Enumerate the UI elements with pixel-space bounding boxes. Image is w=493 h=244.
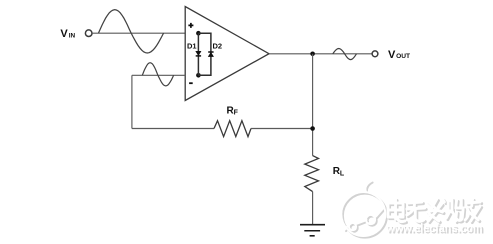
node D1 D2 bottom junction dot (196, 73, 201, 78)
svg-text:F: F (234, 110, 239, 117)
svg-text:IN: IN (69, 33, 76, 40)
label RL (333, 166, 345, 177)
op-amp - input pin label (189, 82, 193, 84)
node feedback junction dot (310, 126, 315, 131)
svg-text:D2: D2 (213, 42, 223, 51)
wire input VIN to op-amp + input (92, 32, 185, 34)
svg-text:OUT: OUT (396, 53, 410, 60)
label D2 (213, 42, 223, 51)
wire feedback bottom left segment to RF (132, 128, 214, 130)
label RF (227, 106, 239, 117)
wire RF to output node (251, 128, 313, 130)
node VOUT terminal (372, 51, 378, 57)
node D1 D2 top junction dot (196, 31, 201, 36)
op-amp U1 triangle (185, 7, 269, 101)
node VIN terminal (85, 30, 92, 37)
output sine wave symbol (333, 49, 357, 60)
node output junction dot (310, 52, 315, 57)
wire op-amp output to VOUT terminal (269, 53, 372, 55)
op-amp + input pin label (188, 23, 193, 28)
label D1 (187, 42, 197, 51)
diode D1 (pointing down) (196, 51, 201, 56)
resistor RL zigzag (305, 156, 319, 192)
resistor RF zigzag (214, 121, 251, 137)
svg-text:L: L (340, 170, 345, 177)
wire diode D1 branch vertical (197, 33, 199, 75)
wire feedback left vertical segment (131, 75, 133, 128)
diode D2 (pointing up) (208, 52, 213, 57)
wire diode D2 branch (top horizontal, vertical, bottom horizontal) (198, 33, 211, 75)
wire output node down to RL (312, 54, 314, 156)
wire op-amp - input to feedback corner (132, 74, 185, 76)
label VIN (60, 28, 75, 40)
svg-text:V: V (388, 49, 396, 61)
feedback sine wave symbol (142, 63, 173, 86)
svg-text:D1: D1 (187, 42, 197, 51)
wire RL to ground (312, 192, 314, 225)
input sine wave symbol (99, 10, 164, 53)
label VOUT (388, 49, 410, 61)
ground (300, 225, 325, 236)
svg-text:V: V (60, 28, 68, 40)
